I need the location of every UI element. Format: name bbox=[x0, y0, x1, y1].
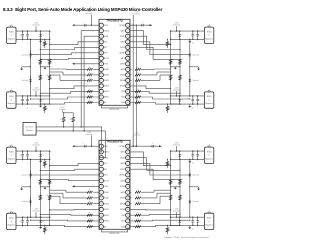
chain R34 junction dots bbox=[189, 159, 190, 160]
svg-text:4: 4 bbox=[101, 163, 102, 165]
U1 right sense resistor pin 15 bbox=[135, 101, 141, 103]
svg-text:SCL: SCL bbox=[104, 163, 108, 165]
IC U2 pin 18 right circle bbox=[126, 156, 130, 160]
svg-text:1: 1 bbox=[101, 25, 102, 27]
connector J6 RJ45 block bbox=[204, 92, 213, 108]
port P3 bottom rail wire bbox=[16, 158, 50, 160]
svg-text:RJ45: RJ45 bbox=[207, 96, 211, 98]
port P7 top rail wire bbox=[171, 150, 205, 152]
svg-text:14: 14 bbox=[100, 221, 102, 223]
U1 right stairs upper wire to pin 4 bbox=[130, 42, 190, 55]
SCL drop to U2 bbox=[99, 131, 105, 158]
svg-text:22: 22 bbox=[127, 69, 129, 71]
IC U1 pin 2 left circle bbox=[99, 29, 103, 33]
IC U2 pin 22 right circle bbox=[126, 179, 130, 183]
chain L12 vertical wire C bbox=[49, 31, 51, 104]
chain L34 vertical wire A bbox=[30, 159, 32, 217]
U1 right stairs upper junction dot pin 3 bbox=[179, 49, 180, 50]
IC U1 pin 16 right circle bbox=[126, 23, 130, 27]
U2 +3.3V net arrow bbox=[72, 145, 74, 147]
port P1 TVS diode bbox=[40, 31, 42, 34]
chain L12 optional diode upper bbox=[30, 50, 32, 53]
port P6 +54V stub bbox=[176, 91, 178, 96]
svg-text:A1: A1 bbox=[104, 225, 106, 228]
U2 +3.3V rail wire bbox=[75, 145, 99, 147]
U2 left KSENSE resistor pin 10 bbox=[93, 197, 99, 199]
chain L12 mid ground bbox=[40, 66, 49, 68]
svg-text:8: 8 bbox=[101, 63, 102, 65]
chain R12 junction dots bbox=[189, 39, 190, 40]
IC U1 pin 13 left circle bbox=[99, 89, 103, 93]
svg-text:RS3: RS3 bbox=[121, 226, 125, 228]
svg-text:14: 14 bbox=[100, 97, 102, 99]
svg-text:(Isolated): (Isolated) bbox=[32, 24, 39, 27]
svg-text:29: 29 bbox=[127, 152, 129, 154]
I2C host master block bbox=[23, 122, 36, 135]
pull-up resistor RP2 bbox=[72, 113, 74, 117]
port P4 bottom rail wire bbox=[16, 224, 50, 226]
U1 right stairs lower junction dot pin 15 bbox=[179, 104, 180, 105]
chain L34 resistor RB1 bbox=[39, 179, 42, 184]
svg-text:SCL: SCL bbox=[104, 42, 108, 44]
aux bus vertical wire bbox=[135, 25, 137, 146]
IC U2 pin 28 right circle bbox=[126, 213, 130, 217]
svg-text:RS3: RS3 bbox=[121, 102, 125, 104]
chain L12 resistor RC1 bbox=[48, 59, 51, 64]
svg-text:24: 24 bbox=[127, 58, 129, 60]
U1 +3.3V net arrow bbox=[72, 24, 74, 26]
IC U2 pin 17 right circle bbox=[126, 150, 130, 154]
U1 right KSENSE resistor pin 11 bbox=[130, 79, 132, 81]
U2 right stairs lower junction dot pin 12 bbox=[170, 209, 171, 210]
connector J8 RJ45 block bbox=[204, 213, 213, 229]
port P4 +54V stub bbox=[35, 212, 37, 217]
svg-text:11: 11 bbox=[100, 203, 102, 205]
svg-text:DRN2: DRN2 bbox=[120, 169, 125, 171]
svg-text:VDD: VDD bbox=[104, 146, 109, 148]
U1 bulk capacitor bbox=[141, 24, 142, 26]
port P4 detect resistor bbox=[44, 225, 45, 226]
chain R34 side ground stub bbox=[190, 186, 199, 188]
IC U2 pin 21 right circle bbox=[126, 173, 130, 177]
svg-text:26: 26 bbox=[127, 169, 129, 171]
port P5 detect resistor bbox=[167, 39, 168, 40]
chain R34 vertical wire C bbox=[170, 151, 172, 225]
U2 right sense resistor pin 14 bbox=[135, 220, 141, 222]
U2 bulk capacitor bbox=[151, 145, 152, 147]
SCL riser to U1 bbox=[84, 36, 99, 131]
U2 left stairs upper junction dot pin 7 bbox=[40, 179, 41, 180]
chain R12 vertical wire B bbox=[179, 39, 181, 96]
svg-text:RJ45: RJ45 bbox=[9, 151, 13, 153]
U1 left stairs lower junction dot pin 15 bbox=[40, 104, 41, 105]
chain R12 vertical wire C bbox=[170, 31, 172, 104]
svg-text:23: 23 bbox=[127, 63, 129, 65]
svg-text:KSA1: KSA1 bbox=[104, 191, 109, 194]
port P3 detect resistor bbox=[44, 159, 45, 160]
svg-text:16: 16 bbox=[127, 226, 129, 228]
svg-text:9: 9 bbox=[101, 69, 102, 71]
svg-text:5: 5 bbox=[101, 47, 102, 49]
U2 right stairs upper junction dot pin 3 bbox=[179, 170, 180, 171]
svg-text:SEN2: SEN2 bbox=[104, 97, 109, 99]
port P8 ground bbox=[189, 225, 191, 227]
I2C bus junction dots bbox=[81, 126, 82, 127]
IC U1 pin 18 right circle bbox=[126, 34, 130, 38]
U1 left stairs lower wire to pin 14 bbox=[31, 97, 100, 99]
svg-text:21: 21 bbox=[127, 198, 129, 200]
chain R34 optional diode lower bbox=[189, 197, 191, 200]
svg-text:AUTO: AUTO bbox=[104, 57, 110, 60]
svg-text:SENA: SENA bbox=[120, 79, 126, 82]
IC U1 pin 25 right circle bbox=[126, 73, 130, 77]
U2 decoupling capacitor bbox=[84, 145, 86, 148]
IC U1 pin 29 right circle bbox=[126, 95, 130, 99]
chain R12 resistor RC2 bbox=[169, 75, 172, 80]
IC U1 ADDR strap bracket bbox=[101, 105, 127, 108]
port P3 junction dots bbox=[22, 150, 23, 151]
svg-text:RJ45: RJ45 bbox=[207, 151, 211, 153]
port P2 +54V stub bbox=[35, 91, 37, 96]
connector J4 RJ45 block bbox=[7, 213, 16, 229]
svg-text:RJ45: RJ45 bbox=[207, 31, 211, 33]
port P4 capacitor C1 bbox=[22, 217, 24, 220]
port P7 capacitor C2 bbox=[192, 151, 194, 154]
port P3 ground bbox=[40, 159, 42, 161]
IC U1 pin 12 left circle bbox=[99, 84, 103, 88]
svg-text:15: 15 bbox=[100, 102, 102, 104]
U1 left stairs upper junction dot pin 5 bbox=[40, 49, 41, 50]
U1 right stairs lower wire to pin 12 bbox=[130, 86, 171, 89]
svg-text:(Isolated): (Isolated) bbox=[32, 144, 39, 147]
U1 left stairs lower junction dot pin 13 bbox=[40, 93, 41, 94]
svg-text:DVDD: DVDD bbox=[104, 152, 110, 154]
IC U2 pin 7 left circle bbox=[99, 179, 103, 183]
svg-text:13: 13 bbox=[100, 215, 102, 217]
IC U1 pin 7 left circle bbox=[99, 56, 103, 60]
U1 right stairs lower junction dot pin 12 bbox=[170, 88, 171, 89]
chain R34 resistor RB2 bbox=[179, 195, 182, 200]
port P1 detect resistor bbox=[44, 39, 45, 40]
svg-text:27: 27 bbox=[127, 163, 129, 165]
IC U1 pin 9 left circle bbox=[99, 67, 103, 71]
svg-text:6: 6 bbox=[101, 52, 102, 54]
svg-text:SENB: SENB bbox=[120, 86, 126, 88]
chain L34 side ground stub bbox=[22, 186, 31, 188]
svg-text:17: 17 bbox=[127, 97, 129, 99]
svg-text:25: 25 bbox=[127, 52, 129, 54]
svg-text:GAT2: GAT2 bbox=[120, 41, 125, 44]
svg-text:KSB2: KSB2 bbox=[104, 86, 109, 88]
chain L12 resistor RC2 bbox=[48, 75, 51, 80]
port P4 TVS diode bbox=[40, 217, 42, 220]
svg-text:27: 27 bbox=[127, 41, 129, 43]
U2 right stairs upper junction dot pin 4 bbox=[189, 174, 190, 175]
IC U1 pin 28 right circle bbox=[126, 89, 130, 93]
IC U1 pin 3 left circle bbox=[99, 34, 103, 38]
port P5 TVS diode bbox=[179, 31, 181, 34]
port P7 +54V stub bbox=[176, 146, 178, 151]
IC U2 pin 9 left circle bbox=[99, 190, 103, 194]
IC U1 pin 5 left circle bbox=[99, 45, 103, 49]
svg-text:(Isolated): (Isolated) bbox=[32, 88, 39, 91]
port P8 capacitor C2 bbox=[192, 217, 194, 220]
U1 left stairs upper junction dot pin 6 bbox=[30, 54, 31, 55]
chain L34 mid ground bbox=[40, 186, 49, 188]
U2 left stairs lower wire to pin 14 bbox=[31, 219, 100, 222]
svg-text:I2C Host: I2C Host bbox=[26, 126, 34, 129]
U1 left KSENSE resistor pin 9 bbox=[93, 68, 99, 70]
svg-text:RS2: RS2 bbox=[121, 97, 125, 99]
IC U2 pin 4 left circle bbox=[99, 161, 103, 165]
chain R12 side ground stub bbox=[190, 66, 199, 68]
port P2 capacitor C2 bbox=[27, 96, 29, 99]
connector J3 RJ45 block bbox=[7, 147, 16, 163]
U2 left KSENSE resistor pin 9 bbox=[93, 191, 99, 193]
svg-text:KSA2: KSA2 bbox=[104, 197, 109, 200]
port P7 TVS diode bbox=[179, 151, 181, 154]
svg-text:VPWR: VPWR bbox=[119, 25, 125, 27]
svg-text:+3.3V: +3.3V bbox=[60, 107, 66, 109]
chain L12 side ground stub bbox=[22, 66, 31, 68]
svg-text:28: 28 bbox=[127, 157, 129, 159]
svg-text:SEN1: SEN1 bbox=[104, 91, 109, 93]
U1 right stairs upper junction dot pin 4 bbox=[189, 54, 190, 55]
svg-text:4: 4 bbox=[101, 41, 102, 43]
svg-text:RS1: RS1 bbox=[121, 91, 125, 93]
IC U1 pin 15 left circle bbox=[99, 100, 103, 104]
svg-text:20: 20 bbox=[127, 80, 129, 82]
svg-text:SENB: SENB bbox=[120, 209, 126, 211]
IC U1 pin 20 right circle bbox=[126, 45, 130, 49]
U2 right stairs lower junction dot pin 14 bbox=[189, 220, 190, 221]
U2 left stairs upper wire to pin 6 bbox=[31, 174, 100, 176]
port P6 capacitor C2 bbox=[192, 96, 194, 99]
svg-text:VPWR: VPWR bbox=[119, 146, 125, 148]
svg-text:GAT4: GAT4 bbox=[120, 68, 125, 71]
U2 right stairs upper junction dot pin 2 bbox=[170, 165, 171, 166]
+54V bus vertical wire bbox=[132, 25, 134, 146]
svg-text:GAT4: GAT4 bbox=[120, 191, 125, 194]
U1 left stairs upper junction dot pin 7 bbox=[40, 59, 41, 60]
U1 left stairs lower junction dot pin 14 bbox=[30, 98, 31, 99]
chain R34 mid ground bbox=[171, 186, 180, 188]
port P1 ground bbox=[40, 39, 42, 41]
svg-text:AGND: AGND bbox=[120, 52, 126, 55]
svg-text:(Isolated): (Isolated) bbox=[32, 210, 39, 213]
svg-text:(Isolated): (Isolated) bbox=[173, 88, 180, 91]
svg-text:DRN4: DRN4 bbox=[120, 75, 125, 77]
svg-text:18: 18 bbox=[127, 91, 129, 93]
IC U1 pin 14 left circle bbox=[99, 95, 103, 99]
IC U1 pin 27 right circle bbox=[126, 84, 130, 88]
svg-text:21: 21 bbox=[127, 75, 129, 77]
U1 left stairs lower wire to pin 12 bbox=[50, 86, 99, 89]
chain L12 resistor RB1 bbox=[39, 59, 42, 64]
port P2 bottom rail wire bbox=[16, 103, 50, 105]
svg-text:(Isolated): (Isolated) bbox=[173, 144, 180, 147]
port P2 TVS diode bbox=[40, 96, 42, 99]
IC U2 pin 15 left circle bbox=[99, 225, 103, 229]
svg-text:+3.3V: +3.3V bbox=[86, 132, 92, 134]
U2 label stub bbox=[90, 136, 92, 147]
svg-text:VDD: VDD bbox=[104, 25, 109, 27]
U2 +54V rail wire bbox=[130, 145, 162, 147]
IC U1 pin 8 left circle bbox=[99, 62, 103, 66]
IC U2 pin 25 right circle bbox=[126, 196, 130, 200]
U1 right stairs upper wire to pin 5 bbox=[130, 47, 180, 59]
U1 label stub bbox=[90, 15, 92, 26]
chain R34 resistor RC2 bbox=[169, 195, 172, 200]
svg-text:7: 7 bbox=[101, 58, 102, 60]
svg-text:KSB1: KSB1 bbox=[104, 203, 109, 205]
svg-text:DRN1: DRN1 bbox=[120, 36, 125, 38]
U2 left stairs upper wire to pin 7 bbox=[40, 180, 99, 181]
svg-text:DRN3: DRN3 bbox=[120, 186, 125, 188]
svg-text:DRN1: DRN1 bbox=[120, 157, 125, 159]
IC U2 pin 10 left circle bbox=[99, 196, 103, 200]
U2 left sense resistor pin 15 bbox=[87, 226, 93, 228]
IC U1 body bbox=[99, 19, 130, 105]
IC U1 pin 11 left circle bbox=[99, 78, 103, 82]
chain L12 optional diode lower bbox=[30, 76, 32, 79]
IC U2 pin 2 left circle bbox=[99, 150, 103, 154]
svg-text:29: 29 bbox=[127, 30, 129, 32]
U1 right stairs lower junction dot pin 13 bbox=[179, 93, 180, 94]
U2 left stairs upper wire to pin 4 bbox=[50, 163, 99, 165]
U1 left sense resistor pin 15 bbox=[87, 101, 93, 103]
svg-text:11: 11 bbox=[100, 80, 102, 82]
U1 right stairs lower wire to pin 14 bbox=[130, 97, 190, 99]
U1 right sense resistor pin 13 bbox=[135, 90, 141, 92]
IC U2 pin 23 right circle bbox=[126, 184, 130, 188]
U1 left stairs upper wire to pin 6 bbox=[31, 53, 100, 55]
port P8 detect resistor bbox=[167, 225, 168, 226]
pull-up rail bbox=[64, 112, 73, 114]
U2 left stairs upper junction dot pin 5 bbox=[40, 170, 41, 171]
port P2 capacitor C1 bbox=[22, 96, 24, 99]
svg-text:7: 7 bbox=[101, 180, 102, 182]
svg-text:GAT1: GAT1 bbox=[120, 29, 125, 32]
svg-text:17: 17 bbox=[127, 221, 129, 223]
chain L34 junction dots bbox=[30, 159, 31, 160]
port P8 TVS diode bbox=[179, 217, 181, 220]
U1 right stairs upper junction dot pin 2 bbox=[170, 44, 171, 45]
port P5 top rail wire bbox=[171, 30, 205, 32]
chain R34 optional diode upper bbox=[189, 170, 191, 173]
port P1 top rail wire bbox=[16, 30, 50, 32]
chain R12 resistor RC1 bbox=[169, 59, 172, 64]
U1 right KSENSE resistor pin 9 bbox=[130, 68, 132, 70]
U2 right sense resistor pin 13 bbox=[135, 214, 141, 216]
U1 junction dot bbox=[136, 25, 137, 26]
chain R34 resistor RC1 bbox=[169, 179, 172, 184]
port P3 capacitor C1 bbox=[22, 151, 24, 154]
U1 right stairs lower wire to pin 13 bbox=[130, 91, 180, 93]
svg-text:RJ45: RJ45 bbox=[9, 218, 13, 220]
U2 left stairs lower junction dot pin 15 bbox=[40, 225, 41, 226]
port P3 TVS diode bbox=[40, 151, 42, 154]
svg-text:26: 26 bbox=[127, 47, 129, 49]
svg-text:5: 5 bbox=[101, 169, 102, 171]
U1 AUTO pin net arrow bbox=[75, 63, 100, 65]
U1 right stairs upper wire to pin 3 bbox=[130, 36, 180, 49]
port P7 capacitor C1 bbox=[197, 151, 199, 154]
U1 left stairs lower wire to pin 13 bbox=[40, 91, 99, 93]
port P5 ground bbox=[189, 39, 191, 41]
pull-up junction dots bbox=[63, 126, 64, 127]
U1 left stairs upper wire to pin 7 bbox=[40, 58, 99, 59]
U1 decoupling capacitor bbox=[84, 24, 86, 27]
chain L34 resistor RB2 bbox=[39, 195, 42, 200]
port P7 bottom rail wire bbox=[171, 158, 205, 160]
chain L34 optional diode lower bbox=[30, 197, 32, 200]
IC U2 pin 29 right circle bbox=[126, 219, 130, 223]
U2 right stairs upper wire to pin 4 bbox=[130, 163, 190, 175]
port P5 capacitor C1 bbox=[197, 31, 199, 34]
connector J1 RJ45 block bbox=[7, 27, 16, 43]
svg-text:AGND: AGND bbox=[120, 174, 126, 177]
port P7 ground bbox=[189, 159, 191, 161]
connector J5 RJ45 block bbox=[204, 27, 213, 43]
chain R12 optional diode lower bbox=[189, 76, 191, 79]
svg-text:ADDR GND: ADDR GND bbox=[109, 232, 120, 235]
U2 right stairs upper junction dot pin 5 bbox=[179, 179, 180, 180]
U2 right stairs lower wire to pin 13 bbox=[130, 213, 180, 216]
port P6 detect resistor bbox=[167, 104, 168, 105]
IC U1 pin 21 right circle bbox=[126, 51, 130, 55]
port P2 junction dots bbox=[22, 95, 23, 96]
U2 left stairs upper wire to pin 5 bbox=[40, 169, 99, 170]
IC U2 pin 16 right circle bbox=[126, 144, 130, 148]
pull-up resistor RP1 bbox=[63, 113, 65, 117]
U2 left stairs lower wire to pin 15 bbox=[40, 225, 99, 226]
svg-text:TPS23861RTQ: TPS23861RTQ bbox=[106, 20, 122, 23]
chain L12 resistor RB2 bbox=[39, 75, 42, 80]
svg-text:KSB1: KSB1 bbox=[104, 80, 109, 82]
port P8 capacitor C1 bbox=[197, 217, 199, 220]
svg-text:8.3.3: 8.3.3 bbox=[3, 7, 13, 12]
svg-text:12: 12 bbox=[100, 86, 102, 88]
svg-text:Copyright © 2016, Texas Instru: Copyright © 2016, Texas Instruments Inco… bbox=[164, 236, 209, 239]
svg-text:10: 10 bbox=[100, 198, 102, 200]
svg-text:ADDR GND: ADDR GND bbox=[109, 108, 120, 111]
U2 right stairs upper wire to pin 5 bbox=[130, 169, 180, 180]
U1 right stairs upper wire to pin 2 bbox=[130, 31, 171, 45]
svg-text:22: 22 bbox=[127, 192, 129, 194]
svg-text:SEN1: SEN1 bbox=[104, 215, 109, 217]
IC U2 pin 12 left circle bbox=[99, 207, 103, 211]
connector J7 RJ45 block bbox=[204, 147, 213, 163]
IC U2 pin 13 left circle bbox=[99, 213, 103, 217]
svg-text:Master: Master bbox=[26, 129, 32, 132]
chain R34 resistor RB1 bbox=[179, 179, 182, 184]
chain R12 mid ground bbox=[171, 66, 180, 68]
U1 +54V net arrow bbox=[150, 24, 152, 26]
IC U2 pin 20 right circle bbox=[126, 167, 130, 171]
port P1 +54V stub bbox=[35, 26, 37, 31]
svg-text:6: 6 bbox=[101, 175, 102, 177]
svg-text:RS2: RS2 bbox=[121, 221, 125, 223]
SDA riser to U1 bbox=[81, 31, 99, 127]
svg-text:DRN3: DRN3 bbox=[120, 64, 125, 66]
IC U1 pin 1 left circle bbox=[99, 23, 103, 27]
chain L12 junction dots bbox=[30, 39, 31, 40]
U2 left stairs upper junction dot pin 4 bbox=[49, 165, 50, 166]
U1 left stairs upper wire to pin 5 bbox=[40, 47, 99, 49]
port P6 ground bbox=[189, 104, 191, 106]
svg-text:19: 19 bbox=[127, 86, 129, 88]
